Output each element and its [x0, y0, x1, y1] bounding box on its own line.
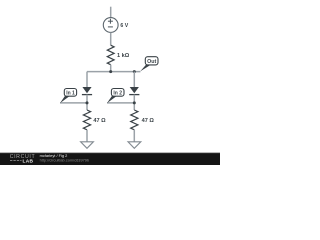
svg-text:In 1: In 1 — [66, 91, 75, 97]
svg-text:In 2: In 2 — [113, 91, 122, 97]
svg-text:47 Ω: 47 Ω — [93, 118, 106, 124]
svg-text:1 kΩ: 1 kΩ — [117, 53, 130, 59]
svg-text:47 Ω: 47 Ω — [142, 118, 155, 124]
svg-text:6 V: 6 V — [120, 23, 128, 29]
svg-text:Out: Out — [147, 59, 156, 65]
svg-text:LAB: LAB — [23, 158, 34, 164]
svg-text:http://circuitlab.com/c63979b: http://circuitlab.com/c63979b — [40, 157, 90, 162]
